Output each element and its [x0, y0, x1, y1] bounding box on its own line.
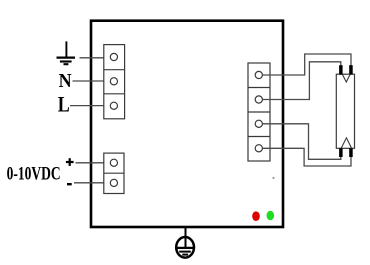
wire TB3-3 to lamp bottom-left pin — [262, 124, 340, 160]
plus sign — [66, 158, 74, 166]
wire N to TB1-2 — [73, 80, 111, 82]
minus sign — [67, 183, 72, 185]
lamp tube — [336, 74, 354, 148]
wire PE to TB1-1 — [80, 57, 111, 59]
terminal block TB1 (mains input) — [104, 45, 125, 119]
earth ground symbol — [176, 227, 194, 258]
lamp pin bottom-right — [349, 148, 353, 157]
svg-text:L: L — [58, 92, 70, 117]
terminal block TB3 (lamp output) — [248, 63, 270, 161]
enclosure box — [91, 21, 283, 227]
lamp filament bottom — [341, 138, 351, 148]
stray dot artifact — [272, 177, 274, 179]
wire TB3-4 to lamp bottom-right pin — [262, 148, 351, 166]
LED red — [252, 211, 260, 221]
lamp filament top — [342, 74, 350, 82]
wire plus to TB2-1 — [76, 162, 111, 164]
lamp pin top-right — [349, 65, 353, 74]
lamp pin top-left — [339, 65, 343, 74]
svg-text:N: N — [59, 70, 72, 92]
wire TB3-1 to lamp top-right pin — [262, 54, 351, 75]
wire minus to TB2-2 — [74, 182, 110, 184]
lamp pin bottom-left — [339, 148, 343, 157]
PE ground symbol — [57, 41, 76, 64]
terminal block TB2 (0-10V input) — [104, 153, 124, 193]
wire L to TB1-3 — [70, 105, 110, 107]
LED green — [267, 211, 275, 220]
wire TB3-2 to lamp top-left pin — [262, 62, 340, 100]
svg-text:0-10VDC: 0-10VDC — [7, 163, 61, 184]
